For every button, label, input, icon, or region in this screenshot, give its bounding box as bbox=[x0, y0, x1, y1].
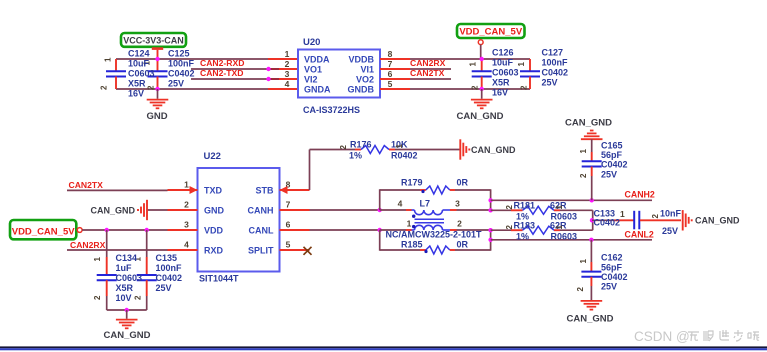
svg-text:CAN2-RXD: CAN2-RXD bbox=[200, 58, 244, 68]
svg-text:CAN_GND: CAN_GND bbox=[457, 111, 504, 122]
svg-text:0R: 0R bbox=[457, 240, 469, 250]
svg-text:2: 2 bbox=[579, 173, 588, 178]
svg-text:C127: C127 bbox=[542, 48, 564, 58]
svg-text:CAN2RX: CAN2RX bbox=[410, 58, 446, 68]
svg-text:CAN_GND: CAN_GND bbox=[471, 145, 516, 155]
svg-text:C0603: C0603 bbox=[128, 69, 155, 79]
svg-text:STB: STB bbox=[256, 186, 275, 196]
svg-text:1: 1 bbox=[285, 49, 290, 59]
svg-text:2: 2 bbox=[147, 85, 156, 90]
svg-text:CSDN @: CSDN @ bbox=[634, 329, 690, 344]
svg-text:3: 3 bbox=[285, 69, 290, 79]
svg-text:CA-IS3722HS: CA-IS3722HS bbox=[303, 105, 360, 115]
svg-text:R179: R179 bbox=[401, 178, 423, 188]
svg-text:U22: U22 bbox=[204, 151, 221, 162]
svg-text:1: 1 bbox=[517, 62, 526, 67]
svg-text:1%: 1% bbox=[349, 151, 362, 161]
svg-text:CAN2TX: CAN2TX bbox=[410, 68, 445, 78]
svg-text:C0603: C0603 bbox=[116, 273, 143, 283]
svg-text:1: 1 bbox=[469, 62, 478, 67]
svg-text:1: 1 bbox=[395, 144, 404, 149]
svg-text:2: 2 bbox=[134, 295, 143, 300]
svg-text:10V: 10V bbox=[116, 293, 132, 303]
svg-text:2: 2 bbox=[520, 85, 529, 90]
svg-text:C135: C135 bbox=[156, 253, 178, 263]
svg-text:VO1: VO1 bbox=[304, 64, 322, 74]
svg-text:C0402: C0402 bbox=[156, 273, 183, 283]
svg-text:100nF: 100nF bbox=[156, 263, 183, 273]
svg-text:VDD: VDD bbox=[204, 226, 224, 236]
svg-text:1: 1 bbox=[407, 219, 412, 229]
svg-text:X5R: X5R bbox=[128, 79, 146, 89]
svg-text:0R: 0R bbox=[457, 178, 469, 188]
svg-text:2: 2 bbox=[339, 145, 348, 150]
svg-text:2: 2 bbox=[505, 225, 514, 230]
svg-text:6: 6 bbox=[388, 69, 393, 79]
svg-text:C0402: C0402 bbox=[601, 160, 628, 170]
svg-text:25V: 25V bbox=[542, 78, 558, 88]
svg-text:1: 1 bbox=[579, 149, 588, 154]
svg-text:VI2: VI2 bbox=[304, 74, 318, 84]
svg-text:C0402: C0402 bbox=[542, 68, 569, 78]
svg-text:RXD: RXD bbox=[204, 246, 224, 256]
svg-text:R0603: R0603 bbox=[551, 231, 578, 241]
svg-text:4: 4 bbox=[285, 79, 290, 89]
svg-text:1: 1 bbox=[104, 57, 113, 62]
svg-text:7: 7 bbox=[286, 200, 291, 210]
svg-text:5: 5 bbox=[388, 79, 393, 89]
svg-text:25V: 25V bbox=[601, 169, 617, 179]
svg-text:6: 6 bbox=[286, 220, 291, 230]
svg-text:CANH: CANH bbox=[248, 206, 274, 216]
svg-text:56pF: 56pF bbox=[601, 150, 623, 160]
svg-text:CAN2TX: CAN2TX bbox=[69, 180, 104, 190]
svg-text:C165: C165 bbox=[601, 140, 623, 150]
svg-text:56pF: 56pF bbox=[601, 262, 623, 272]
svg-text:2: 2 bbox=[285, 59, 290, 69]
svg-text:VDDB: VDDB bbox=[348, 54, 374, 64]
svg-text:R183: R183 bbox=[514, 221, 536, 231]
svg-text:1: 1 bbox=[620, 209, 625, 219]
svg-text:SIT1044T: SIT1044T bbox=[199, 274, 239, 284]
svg-text:10uF: 10uF bbox=[492, 58, 514, 68]
svg-text:R185: R185 bbox=[401, 240, 423, 250]
svg-text:CAN2-TXD: CAN2-TXD bbox=[200, 68, 243, 78]
svg-text:C126: C126 bbox=[492, 48, 514, 58]
svg-text:100nF: 100nF bbox=[168, 59, 195, 69]
svg-text:2: 2 bbox=[184, 200, 189, 210]
svg-text:C0402: C0402 bbox=[601, 272, 628, 282]
svg-text:VDD_CAN_5V: VDD_CAN_5V bbox=[12, 226, 75, 237]
svg-text:25V: 25V bbox=[156, 283, 172, 293]
svg-text:C162: C162 bbox=[601, 253, 623, 263]
svg-text:U20: U20 bbox=[303, 37, 320, 48]
svg-text:CAN_GND: CAN_GND bbox=[565, 118, 612, 129]
svg-text:2: 2 bbox=[505, 205, 514, 210]
svg-text:1: 1 bbox=[93, 257, 102, 262]
svg-text:C0603: C0603 bbox=[492, 68, 519, 78]
svg-text:VI1: VI1 bbox=[360, 64, 374, 74]
svg-text:CANH2: CANH2 bbox=[625, 190, 655, 200]
svg-text:C134: C134 bbox=[116, 253, 138, 263]
svg-text:2: 2 bbox=[576, 287, 585, 292]
svg-text:CAN_GND: CAN_GND bbox=[695, 216, 740, 226]
svg-text:C0402: C0402 bbox=[168, 69, 195, 79]
svg-text:1: 1 bbox=[555, 205, 564, 210]
svg-text:GNDA: GNDA bbox=[304, 84, 331, 94]
svg-text:7: 7 bbox=[388, 59, 393, 69]
svg-text:TXD: TXD bbox=[204, 186, 223, 196]
svg-text:L7: L7 bbox=[420, 199, 431, 209]
svg-text:CANL: CANL bbox=[249, 226, 274, 236]
svg-text:25V: 25V bbox=[662, 226, 678, 236]
svg-text:CAN_GND: CAN_GND bbox=[567, 314, 614, 325]
svg-text:100nF: 100nF bbox=[542, 58, 569, 68]
svg-text:X5R: X5R bbox=[492, 78, 510, 88]
svg-text:GND: GND bbox=[146, 111, 167, 122]
svg-text:VCC-3V3-CAN: VCC-3V3-CAN bbox=[123, 35, 184, 45]
svg-text:CAN2RX: CAN2RX bbox=[70, 240, 106, 250]
svg-text:GNDB: GNDB bbox=[348, 84, 375, 94]
svg-text:2: 2 bbox=[457, 219, 462, 229]
svg-text:8: 8 bbox=[388, 49, 393, 59]
svg-text:1: 1 bbox=[579, 259, 588, 264]
svg-text:VO2: VO2 bbox=[356, 74, 374, 84]
svg-text:CAN_GND: CAN_GND bbox=[104, 330, 151, 341]
svg-text:C125: C125 bbox=[168, 49, 190, 59]
svg-text:GND: GND bbox=[204, 206, 225, 216]
svg-text:1uF: 1uF bbox=[116, 263, 133, 273]
svg-text:3: 3 bbox=[184, 220, 189, 230]
svg-text:CANL2: CANL2 bbox=[625, 229, 654, 239]
svg-text:16V: 16V bbox=[492, 88, 508, 98]
svg-text:1: 1 bbox=[184, 180, 189, 190]
svg-text:C0402: C0402 bbox=[594, 217, 621, 227]
svg-text:2: 2 bbox=[100, 85, 109, 90]
svg-text:VDD_CAN_5V: VDD_CAN_5V bbox=[459, 26, 522, 37]
svg-text:10nF: 10nF bbox=[660, 209, 682, 219]
svg-text:VDDA: VDDA bbox=[304, 54, 330, 64]
svg-text:1%: 1% bbox=[516, 231, 529, 241]
svg-text:2: 2 bbox=[651, 214, 660, 219]
svg-text:R0402: R0402 bbox=[391, 151, 418, 161]
svg-text:2: 2 bbox=[471, 85, 480, 90]
svg-text:25V: 25V bbox=[601, 282, 617, 292]
svg-text:R176: R176 bbox=[350, 140, 372, 150]
svg-text:3: 3 bbox=[455, 199, 460, 209]
svg-text:SPLIT: SPLIT bbox=[248, 246, 274, 256]
svg-text:25V: 25V bbox=[168, 79, 184, 89]
svg-text:5: 5 bbox=[286, 240, 291, 250]
svg-text:4: 4 bbox=[398, 199, 403, 209]
svg-text:1: 1 bbox=[555, 225, 564, 230]
svg-text:NC/AMCW3225-2-101T: NC/AMCW3225-2-101T bbox=[386, 230, 483, 240]
svg-text:4: 4 bbox=[184, 240, 189, 250]
svg-text:R181: R181 bbox=[514, 201, 536, 211]
svg-text:CAN_GND: CAN_GND bbox=[90, 206, 135, 216]
svg-text:10uF: 10uF bbox=[128, 59, 150, 69]
svg-text:X5R: X5R bbox=[116, 283, 134, 293]
svg-text:16V: 16V bbox=[128, 89, 144, 99]
svg-text:2: 2 bbox=[93, 295, 102, 300]
svg-text:C124: C124 bbox=[128, 49, 150, 59]
